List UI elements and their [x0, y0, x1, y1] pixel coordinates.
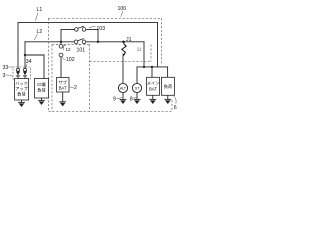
fusible link J1 zigzag	[122, 43, 126, 56]
wire bus to load box	[167, 67, 169, 77]
wire bus to main battery	[151, 67, 153, 77]
svg-text:33: 33	[3, 65, 9, 71]
box sub battery	[57, 78, 70, 93]
wire L2 corner down to bus	[143, 42, 145, 67]
svg-text:12: 12	[66, 47, 72, 52]
text backup load box	[15, 81, 28, 98]
dashed box 100	[49, 18, 173, 111]
svg-text:ST: ST	[135, 86, 139, 90]
wire connector 102 to sub battery	[60, 57, 62, 78]
ground under main battery	[149, 95, 156, 99]
connector 102 contacts	[59, 44, 63, 57]
wire bus	[137, 66, 168, 68]
switch 101 blade	[78, 39, 84, 41]
switch 103 blade	[78, 26, 84, 28]
box backup load	[15, 79, 29, 101]
svg-text:ALT: ALT	[120, 86, 126, 90]
dashed box 3 around terminals	[13, 67, 31, 79]
ground under IG load	[38, 98, 45, 100]
svg-text:11: 11	[137, 46, 142, 51]
text main battery box	[147, 81, 160, 92]
node junction dots	[24, 41, 153, 69]
ground under ALT	[120, 93, 127, 100]
svg-text:103: 103	[97, 26, 106, 32]
svg-text:BAT: BAT	[59, 86, 67, 91]
svg-text:2: 2	[74, 85, 77, 91]
box IG load	[35, 79, 49, 99]
svg-text:負荷: 負荷	[17, 91, 25, 98]
svg-text:8: 8	[130, 97, 133, 103]
svg-text:3: 3	[3, 73, 6, 79]
svg-text:BAT: BAT	[149, 86, 157, 91]
wire L1 left vertical	[17, 23, 19, 69]
terminal 34 circle	[24, 68, 27, 71]
svg-text:負荷: 負荷	[164, 83, 172, 90]
svg-text:100: 100	[118, 6, 127, 12]
wire fusible link J1 to ALT	[122, 56, 124, 84]
text sub battery box	[59, 79, 68, 91]
ground under backup load	[18, 100, 25, 102]
dashed box 11 region	[90, 45, 152, 62]
wire L2 horizontal left	[25, 41, 74, 43]
wire switch 103 bypass loop	[61, 29, 98, 41]
box main battery	[147, 77, 160, 95]
ground under load box	[164, 95, 171, 99]
terminal 33 triangle	[16, 71, 20, 75]
svg-text:6: 6	[174, 105, 177, 111]
dashed box 12 sub battery unit	[52, 45, 90, 112]
terminal 34 triangle	[23, 71, 27, 75]
wire stub to connector 102	[60, 42, 62, 45]
alternator circle ALT	[118, 83, 127, 92]
text IG load box	[37, 82, 46, 94]
svg-text:9: 9	[113, 97, 116, 103]
svg-text:34: 34	[26, 59, 32, 65]
box load	[162, 77, 175, 95]
ground under sub battery	[59, 92, 66, 102]
svg-text:102: 102	[66, 57, 75, 63]
wire branch to IG load	[25, 55, 44, 79]
svg-text:負荷: 負荷	[37, 87, 45, 94]
svg-text:メイン: メイン	[147, 81, 160, 86]
switch 103 contacts	[75, 28, 86, 32]
starter circle ST	[132, 83, 141, 92]
ground under ST	[134, 93, 141, 100]
terminal 33 circle	[17, 68, 20, 71]
wire L2 left vertical	[24, 42, 26, 69]
wire L1 horizontal	[18, 22, 158, 24]
wire bus to ST	[136, 67, 138, 84]
wire L2 horizontal right	[86, 41, 144, 43]
wire L1 right vertical	[157, 23, 159, 67]
switch 101 contacts on L2	[74, 40, 86, 44]
svg-text:101: 101	[77, 48, 86, 54]
svg-text:J1: J1	[126, 37, 132, 43]
svg-text:L1: L1	[37, 7, 43, 13]
